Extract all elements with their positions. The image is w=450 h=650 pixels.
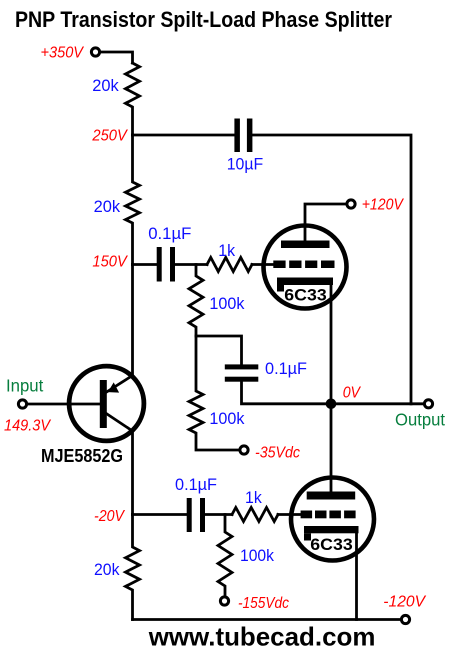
svg-text:20k: 20k (92, 76, 119, 95)
resistor R8 20k (lower left, -20V to bottom rail) (126, 515, 140, 620)
terminal -120V (401, 615, 409, 623)
tube V2 6C33 lower (291, 404, 374, 561)
svg-text:10µF: 10µF (227, 155, 264, 174)
wire R6 to grid of V2 (278, 513, 301, 516)
svg-text:20k: 20k (94, 560, 120, 579)
emitter arrow Q1 (PNP, pointing to base) (108, 382, 119, 392)
resistor R4 100k (node A down) (189, 265, 203, 337)
resistor R6 1k (grid stopper lower) (232, 508, 278, 522)
resistor R2 20k (250V to 150V) (126, 135, 140, 265)
terminal Output (424, 400, 432, 408)
svg-text:0.1µF: 0.1µF (175, 475, 217, 494)
wire cathode V2 down to bottom rail (355, 533, 358, 619)
terminal Input (18, 400, 26, 408)
envelope V2 (291, 478, 374, 561)
svg-text:250V: 250V (91, 128, 128, 145)
collector line Q1 (104, 412, 133, 431)
wire C2 to R3 (junction node A at x=196) (175, 263, 207, 266)
svg-text:0.1µF: 0.1µF (265, 359, 307, 378)
svg-text:0V: 0V (343, 385, 361, 402)
svg-text:-155Vdc: -155Vdc (238, 595, 289, 612)
cathode V2 (304, 526, 359, 541)
cathode V1 (277, 278, 333, 292)
grid V1 (dashes) (273, 261, 334, 269)
wire 150V row: rail to cap C2 (133, 263, 157, 266)
capacitor C2 0.1uF (157, 247, 175, 282)
svg-text:MJE5852G: MJE5852G (41, 446, 123, 466)
wire 250V row: rail to cap C1 (133, 134, 235, 137)
base bar Q1 (100, 380, 107, 428)
terminal +120V (347, 200, 355, 208)
plate lead V2 up to 0V node (330, 404, 333, 492)
wire C4 to R6 (junction node C at x=225) (205, 513, 232, 516)
svg-text:+350V: +350V (41, 44, 85, 61)
svg-text:20k: 20k (94, 197, 121, 216)
wire rail 150V node down to emitter junction (131, 265, 134, 376)
tube V1 6C33 upper (264, 204, 347, 309)
plate V2 (307, 492, 356, 500)
svg-text:1k: 1k (218, 241, 235, 260)
svg-text:0.1µF: 0.1µF (148, 224, 191, 243)
wire 0V node to Output terminal (331, 402, 424, 405)
grid V2 (dashes) (301, 511, 356, 519)
svg-text:100k: 100k (240, 546, 274, 565)
svg-text:-35Vdc: -35Vdc (255, 445, 300, 462)
svg-text:PNP Transistor Spilt-Load Phas: PNP Transistor Spilt-Load Phase Splitter (15, 7, 392, 32)
envelope Q1 (69, 366, 144, 441)
terminal +350V (91, 48, 99, 56)
svg-text:www.tubecad.com: www.tubecad.com (148, 621, 376, 650)
resistor R7 100k (node C to -155Vdc) (218, 515, 232, 597)
svg-text:6C33: 6C33 (284, 286, 326, 305)
wire from +350V terminal to top of R1 (96, 52, 133, 63)
wire cathode V1 down to 0V node (330, 285, 333, 404)
plate V1 (281, 241, 330, 249)
capacitor C1 10uF (234, 119, 252, 153)
svg-text:6C33: 6C33 (310, 535, 352, 554)
transistor Q1 MJE5852G (41, 366, 144, 466)
svg-text:-120V: -120V (383, 594, 426, 611)
svg-text:1k: 1k (245, 488, 262, 507)
svg-text:149.3V: 149.3V (4, 418, 51, 435)
resistor R1 20k (top left, +350V to 250V) (126, 63, 140, 135)
svg-text:100k: 100k (209, 409, 244, 428)
resistor R5 100k (node B to -35Vdc) (189, 336, 240, 450)
svg-text:150V: 150V (92, 254, 128, 271)
svg-text:Output: Output (395, 410, 445, 430)
terminal -155Vdc (220, 597, 228, 605)
envelope V1 (264, 226, 347, 309)
capacitor C4 0.1uF (187, 498, 205, 532)
capacitor C3 0.1uF (feedback) (225, 364, 258, 381)
wire bottom rail to -120V terminal (133, 618, 402, 621)
node 0V junction dot (326, 399, 337, 410)
wire node B right and down to cap C3 (196, 336, 242, 364)
wire Input terminal to base of Q1 (23, 403, 100, 406)
wire R3 to grid of V1 (252, 263, 274, 266)
svg-text:+120V: +120V (362, 197, 404, 214)
resistor R3 1k (grid stopper upper) (207, 258, 252, 272)
plate lead V1 to +120V (305, 204, 347, 241)
svg-text:Input: Input (6, 375, 43, 395)
wire rail collector junction down to -20V node (131, 431, 134, 515)
svg-text:100k: 100k (209, 294, 244, 313)
wire C3 down and right to 0V node (242, 382, 332, 404)
wire from C1 right to right rail corner and down to output row (252, 135, 411, 404)
svg-text:-20V: -20V (94, 508, 125, 525)
emitter line Q1 (105, 376, 133, 394)
terminal -35Vdc (240, 446, 248, 454)
wire -20V row: rail to cap C4 (133, 513, 187, 516)
